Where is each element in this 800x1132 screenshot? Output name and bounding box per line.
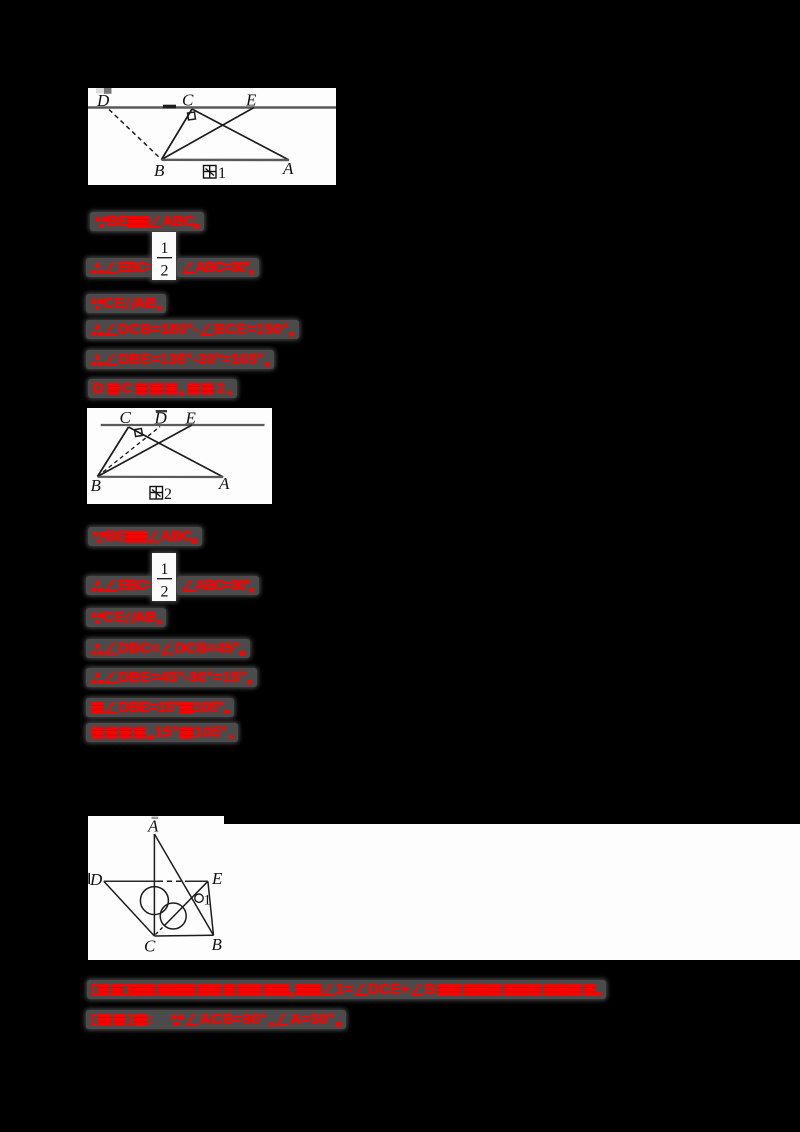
wire AB: [154, 834, 213, 935]
gray artifact top-left: [96, 88, 104, 94]
wire DC: [104, 881, 155, 936]
dashed DB: [109, 110, 162, 160]
wire CE diagonal solid: [164, 881, 208, 926]
svg-text:C: C: [120, 408, 132, 427]
text M1: [88, 527, 202, 546]
text L5: [86, 350, 274, 369]
text L2a: [86, 258, 159, 277]
svg-text:D: D: [154, 409, 168, 428]
text M7: [86, 723, 238, 742]
svg-text:B: B: [91, 476, 102, 495]
svg-text:E: E: [245, 91, 257, 110]
svg-text:E: E: [185, 409, 197, 428]
wire DE: solid left: [104, 880, 158, 882]
svg-text:A: A: [147, 817, 159, 836]
text M5: [86, 668, 257, 687]
circle big: [140, 887, 168, 915]
text L3: [86, 294, 166, 313]
text L6: [88, 379, 237, 398]
wire AC (vertical): [153, 834, 155, 936]
svg-text:D: D: [96, 91, 110, 110]
wire BC: [98, 427, 129, 477]
text M2a: [86, 576, 159, 595]
text N1: [87, 980, 606, 999]
right angle mark at C: [134, 428, 142, 436]
wire DE: dashed middle: [158, 880, 186, 882]
small circle near E (angle 1): [195, 894, 203, 902]
svg-text:C: C: [182, 91, 194, 110]
svg-text:1: 1: [161, 240, 169, 257]
wire CB: [162, 109, 193, 160]
dashed piece of CE near C: [156, 926, 165, 935]
wire BE: [98, 425, 193, 477]
circle small mid: [160, 903, 186, 929]
fraction 1: [152, 232, 176, 280]
text L1: [90, 212, 204, 231]
svg-text:C: C: [144, 937, 156, 956]
dark dash on line left of C: [163, 105, 176, 109]
figure box 3 top strip: [88, 816, 224, 826]
svg-text:1: 1: [204, 893, 212, 909]
figure box 1: [88, 88, 336, 185]
gray dash above A: [152, 817, 159, 819]
svg-text:2: 2: [161, 262, 169, 279]
line DE (top line): [88, 106, 336, 109]
dashed BD: [98, 427, 161, 477]
text M4: [86, 639, 250, 658]
svg-text:D: D: [89, 870, 103, 889]
svg-text:2: 2: [161, 584, 169, 601]
svg-text:2: 2: [164, 486, 172, 503]
text L2b: [177, 258, 259, 277]
left edge tick near D: [88, 873, 90, 884]
svg-text:1: 1: [161, 561, 169, 578]
line CDE (top line): [101, 424, 265, 426]
wire BA (bottom): [98, 476, 224, 478]
text M6: [86, 698, 234, 717]
svg-text:A: A: [218, 474, 230, 493]
text L4: [86, 320, 299, 339]
wire EB: [208, 881, 214, 935]
svg-text:B: B: [154, 161, 165, 180]
svg-text:1: 1: [218, 165, 226, 182]
caption tu2: [150, 487, 163, 500]
wire CA: [129, 427, 224, 477]
wire BE: [162, 108, 255, 160]
fraction 2: [152, 553, 176, 601]
wire CB (bottom): [154, 934, 213, 937]
wire BA (bottom): [162, 159, 290, 162]
dark bar above D: [156, 410, 167, 412]
wire CA: [192, 109, 289, 160]
right angle mark at C: [188, 112, 196, 120]
text M3: [86, 608, 166, 627]
figure box 2: [87, 408, 272, 504]
svg-text:B: B: [212, 935, 223, 954]
figure box 3 main: [88, 824, 800, 960]
svg-text:A: A: [282, 159, 294, 178]
figure 3 drawing: [88, 815, 230, 960]
wire DE: solid right: [186, 880, 208, 882]
svg-text:E: E: [211, 869, 223, 888]
text N2: [86, 1010, 346, 1029]
text M2b: [177, 576, 259, 595]
caption tu1: [204, 166, 217, 179]
